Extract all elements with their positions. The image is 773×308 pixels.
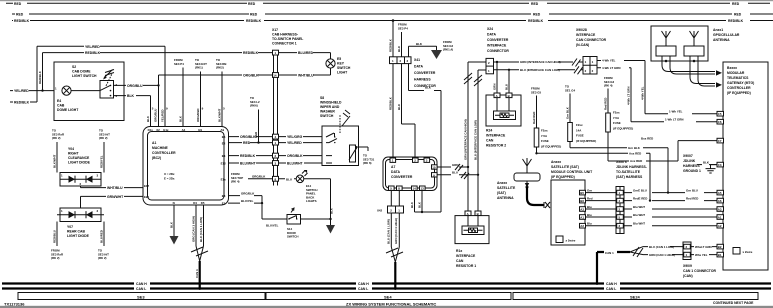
wire Blu WHT 3 JDLink to MTG bbox=[624, 222, 717, 226]
A1 left pins bbox=[144, 184, 150, 199]
svg-text:X9007: X9007 bbox=[683, 154, 693, 158]
svg-text:(IF EQUIPPED): (IF EQUIPPED) bbox=[613, 126, 633, 130]
svg-text:ZX WIRING SYSTEM FUNCTIONAL SC: ZX WIRING SYSTEM FUNCTIONAL SCHEMATIC bbox=[346, 301, 436, 306]
R1 interface CAN resistor 1 bbox=[455, 211, 489, 268]
svg-text:BLU/YEL: BLU/YEL bbox=[241, 199, 254, 203]
stub TO SE3 RR (RK2) bbox=[52, 129, 65, 141]
X42 data converter connector bbox=[377, 191, 404, 214]
svg-text:E2: E2 bbox=[222, 141, 226, 145]
svg-text:GRN (INTERFACE CAN HIGH): GRN (INTERFACE CAN HIGH) bbox=[520, 60, 561, 64]
wire A7 pin3 drop bbox=[423, 91, 425, 158]
svg-text:RED: RED bbox=[734, 13, 742, 17]
wire Red RED JDLink to MTG bbox=[624, 196, 717, 200]
svg-text:CAN CONNECTOR: CAN CONNECTOR bbox=[576, 38, 607, 42]
svg-text:BLK: BLK bbox=[703, 160, 710, 164]
svg-text:F2xx: F2xx bbox=[576, 123, 583, 127]
wire YEL/RED from left to dome light bbox=[10, 89, 62, 93]
svg-text:BLU/RED: BLU/RED bbox=[99, 230, 103, 243]
GPS antenna element 1 bbox=[656, 31, 676, 62]
svg-text:REAR CAB: REAR CAB bbox=[67, 230, 85, 234]
A7 right pins bbox=[432, 165, 438, 178]
svg-text:FUSE: FUSE bbox=[576, 134, 584, 138]
satellite (SAT) antenna bbox=[497, 158, 540, 200]
svg-text:14A: 14A bbox=[576, 128, 582, 132]
svg-text:YEL/RED: YEL/RED bbox=[160, 109, 164, 122]
stub TO SE3 EXT (RK1) to A1 bbox=[195, 58, 207, 127]
wire WHT/BLU from key switch light bbox=[279, 68, 331, 78]
svg-text:X2: X2 bbox=[156, 128, 160, 132]
svg-text:(RK6): (RK6) bbox=[250, 104, 258, 108]
svg-text:R1x: R1x bbox=[456, 249, 462, 253]
wire fuse F1 to MTG row bbox=[537, 152, 652, 202]
wire E14 to ground riser bbox=[304, 179, 334, 225]
svg-text:TO-SATELLITE: TO-SATELLITE bbox=[616, 170, 641, 174]
svg-text:S2: S2 bbox=[72, 65, 76, 69]
X90/28 interface CAN connector (N-CAN) bbox=[576, 28, 607, 74]
bus RED top bbox=[6, 2, 770, 6]
svg-text:YEL/RED: YEL/RED bbox=[85, 45, 100, 49]
svg-text:Red: Red bbox=[587, 196, 593, 200]
svg-text:RED/YEL: RED/YEL bbox=[99, 155, 103, 168]
wire A1 E2 to S8 YEL/RED bbox=[228, 141, 322, 145]
svg-text:A6: A6 bbox=[718, 199, 722, 203]
SAT antenna coax cable to module bbox=[527, 187, 551, 208]
svg-text:(SAT) HARNESS: (SAT) HARNESS bbox=[616, 175, 643, 179]
svg-text:GRN (INTERFACE CAN HIGH): GRN (INTERFACE CAN HIGH) bbox=[463, 119, 467, 160]
svg-text:WHT/BLU: WHT/BLU bbox=[298, 74, 314, 78]
svg-text:X42: X42 bbox=[377, 209, 383, 213]
svg-text:ANTENNA: ANTENNA bbox=[497, 196, 514, 200]
wire ORG/BLU from switch bbox=[114, 84, 160, 88]
wire RED/YEL into Y04 bbox=[99, 142, 104, 173]
stub FROM SE3 P4 to A1 bbox=[174, 58, 184, 127]
svg-text:Bxx RED: Bxx RED bbox=[641, 136, 653, 140]
svg-text:Anxxx: Anxxx bbox=[551, 160, 561, 164]
svg-text:Grn BLK: Grn BLK bbox=[628, 146, 641, 150]
section bar SE24 bbox=[513, 293, 758, 300]
svg-text:BLU (INTERFACE CAN LOW): BLU (INTERFACE CAN LOW) bbox=[520, 68, 560, 72]
X24 data converter interface connector bbox=[468, 27, 509, 74]
wire fuse F2 to MTG row bbox=[570, 146, 669, 194]
A1 machine controller (BC2) bbox=[143, 127, 229, 206]
svg-text:E3: E3 bbox=[222, 194, 226, 198]
wire BLU/RED to key switch light bbox=[279, 51, 331, 59]
lamp E4 cab dome light bbox=[55, 86, 79, 112]
svg-text:10: 10 bbox=[432, 166, 436, 170]
coax antenna 2 to MTG bbox=[690, 61, 722, 88]
svg-text:CAN: CAN bbox=[486, 139, 494, 143]
stub FROM SE3 RxR (RK2) bbox=[51, 249, 64, 261]
S2 cab dome light switch enclosure bbox=[54, 62, 124, 121]
S8 windshield wiper and washer switch bbox=[320, 96, 359, 166]
svg-text:DOME LIGHT: DOME LIGHT bbox=[57, 108, 79, 112]
S14 door switch bbox=[287, 208, 301, 239]
wire BLK from switch bbox=[114, 94, 151, 126]
svg-text:JDLINK HARNESS-: JDLINK HARNESS- bbox=[616, 165, 647, 169]
wire 4-WH LT GRN from X90/28 bbox=[597, 66, 631, 122]
svg-text:Anxxx: Anxxx bbox=[497, 181, 507, 185]
svg-text:LIGHT DIODE: LIGHT DIODE bbox=[68, 161, 91, 165]
wire ORG/BLU drop to A1 bbox=[154, 85, 159, 126]
svg-text:B6: B6 bbox=[580, 199, 584, 203]
svg-text:4-Wh LT GRN: 4-Wh LT GRN bbox=[626, 87, 630, 105]
stub TO SE3 L2 (RK5) bbox=[250, 96, 260, 143]
svg-text:Y04: Y04 bbox=[68, 147, 74, 151]
svg-text:(RK1): (RK1) bbox=[195, 66, 203, 70]
svg-text:X17: X17 bbox=[272, 28, 278, 32]
svg-text:ORG/BLK: ORG/BLK bbox=[240, 135, 256, 139]
svg-text:BLK: BLK bbox=[410, 201, 414, 208]
svg-text:BLU: BLU bbox=[397, 104, 401, 110]
lamp E14 switch panel back lights bbox=[279, 171, 318, 204]
R24 interface CAN resistor 2 bbox=[486, 93, 521, 148]
X17 pin 3 bbox=[273, 161, 279, 166]
wire A1 E6 to S8 YEL/ORG bbox=[228, 135, 322, 139]
svg-text:DATA: DATA bbox=[487, 33, 496, 37]
svg-text:SE1 G4: SE1 G4 bbox=[565, 88, 576, 92]
svg-text:RESISTOR 1: RESISTOR 1 bbox=[456, 264, 476, 268]
svg-text:(RK 2): (RK 2) bbox=[52, 136, 61, 140]
svg-text:TO-SWITCH PANEL: TO-SWITCH PANEL bbox=[272, 37, 303, 41]
svg-text:BLU/YEL: BLU/YEL bbox=[266, 224, 279, 228]
svg-text:RED/BLK: RED/BLK bbox=[246, 19, 262, 23]
wire BLK/WHT into Y04 bbox=[52, 142, 57, 173]
svg-text:SE3 P4: SE3 P4 bbox=[174, 62, 184, 66]
svg-text:MODULAR: MODULAR bbox=[727, 71, 745, 75]
svg-text:Blu WHT: Blu WHT bbox=[633, 213, 645, 217]
svg-text:BLU/RED: BLU/RED bbox=[298, 51, 314, 55]
svg-text:CAN 1: CAN 1 bbox=[195, 269, 199, 278]
MTG left pins bbox=[717, 111, 724, 257]
svg-text:TX1173136: TX1173136 bbox=[4, 301, 25, 306]
A1 bottom pins bbox=[173, 201, 205, 205]
wire A7 pin9 BLU to interface CAN bbox=[437, 171, 479, 179]
A1 top pins bbox=[148, 128, 225, 132]
svg-text:LIGHT: LIGHT bbox=[337, 71, 348, 75]
svg-text:GRN (CAN 1 HIGH): GRN (CAN 1 HIGH) bbox=[394, 218, 398, 244]
svg-text:INTERFACE: INTERFACE bbox=[487, 44, 507, 48]
svg-text:CONVERTER: CONVERTER bbox=[487, 38, 509, 42]
svg-text:MODULE CONTROL UNIT: MODULE CONTROL UNIT bbox=[551, 170, 593, 174]
svg-text:YEL/RED: YEL/RED bbox=[287, 141, 302, 145]
stub TO SE3 RHT (RK2) lower bbox=[98, 249, 109, 261]
svg-text:(RK1,4): (RK1,4) bbox=[443, 48, 453, 52]
wire 1-WH LT GRN to MTG C6 bbox=[631, 118, 717, 122]
svg-text:RED/BLK: RED/BLK bbox=[240, 154, 256, 158]
svg-text:(RK 4): (RK 4) bbox=[231, 180, 240, 184]
X17 pin 8 bbox=[273, 176, 279, 181]
X17 pin 4 bbox=[273, 134, 279, 139]
svg-text:E5: E5 bbox=[222, 202, 226, 206]
wire X9007 BLK to MTG C3 bbox=[709, 164, 717, 166]
svg-text:Blu: Blu bbox=[587, 222, 592, 226]
SAT module right pins bbox=[580, 190, 586, 228]
svg-text:E12: E12 bbox=[221, 162, 227, 166]
page top border bbox=[0, 0, 773, 1]
fuse F2 15A bbox=[565, 85, 596, 148]
B???? modular telematics gateway (MTG) controller bbox=[723, 62, 768, 270]
svg-text:1-Wh YEL: 1-Wh YEL bbox=[669, 110, 683, 114]
svg-text:E21: E21 bbox=[144, 195, 150, 199]
svg-text:HARNESS: HARNESS bbox=[414, 78, 431, 82]
svg-text:A5: A5 bbox=[718, 191, 722, 195]
wire CAN pair from A1 bbox=[191, 205, 203, 246]
svg-text:SWITCH: SWITCH bbox=[287, 235, 298, 239]
wire BLU interface CAN low to X90/28 bbox=[494, 66, 584, 74]
svg-text:(RK 2): (RK 2) bbox=[98, 256, 107, 260]
svg-text:RED/BLK: RED/BLK bbox=[728, 19, 744, 23]
svg-text:C6: C6 bbox=[718, 120, 722, 124]
svg-text:RED/BLK: RED/BLK bbox=[14, 101, 30, 105]
wire YEL/RED to A1 bbox=[37, 45, 165, 49]
svg-text:x 2wire: x 2wire bbox=[566, 239, 576, 243]
svg-text:E4: E4 bbox=[57, 99, 61, 103]
svg-text:SE4: SE4 bbox=[384, 294, 392, 299]
node RED/BLK bus tap for X41 bbox=[392, 19, 395, 22]
svg-text:BLK: BLK bbox=[416, 42, 423, 46]
wire GRN drop to R24 bbox=[492, 62, 497, 95]
svg-text:E1x: E1x bbox=[221, 178, 227, 182]
svg-text:RED: RED bbox=[248, 2, 256, 6]
svg-text:4-Wh LT GRN: 4-Wh LT GRN bbox=[602, 66, 620, 70]
wire A1 E4 to S8 ORG/BLK bbox=[228, 154, 322, 158]
svg-text:BLU/WHT: BLU/WHT bbox=[287, 162, 304, 166]
wire RED/BLK from left bbox=[10, 101, 37, 105]
svg-text:INTERFACE: INTERFACE bbox=[576, 33, 596, 37]
svg-text:X90/9: X90/9 bbox=[683, 264, 692, 268]
svg-text:D1x: D1x bbox=[148, 128, 154, 132]
svg-text:F2xx: F2xx bbox=[613, 111, 620, 115]
X17 pin 14 bbox=[273, 73, 279, 78]
svg-text:WASHER: WASHER bbox=[320, 110, 335, 114]
stub S8 TO SE3 T31 (RK6) bbox=[359, 147, 375, 165]
stub FROM SE3 P4 to X41 bbox=[397, 23, 408, 57]
X17 pin 1b bbox=[273, 140, 279, 145]
svg-text:A4: A4 bbox=[182, 128, 186, 132]
svg-text:RED/BLK: RED/BLK bbox=[528, 19, 544, 23]
svg-text:GrnE BLU: GrnE BLU bbox=[633, 188, 647, 192]
svg-text:Blu WHT: Blu WHT bbox=[633, 205, 645, 209]
svg-text:Bxxxx: Bxxxx bbox=[727, 66, 737, 70]
svg-text:CONVERTER: CONVERTER bbox=[414, 71, 436, 75]
svg-text:CAN L: CAN L bbox=[606, 287, 616, 291]
svg-text:(BC2): (BC2) bbox=[152, 156, 161, 160]
A???? satellite (SAT) module control unit (IF EQUIPPED) bbox=[551, 160, 593, 245]
svg-text:4-Wh YEL: 4-Wh YEL bbox=[640, 86, 644, 100]
svg-text:RED/BLK: RED/BLK bbox=[14, 19, 30, 23]
svg-text:LIGHT DIODE: LIGHT DIODE bbox=[67, 234, 90, 238]
wire RED/BLK X41 to A7 pin1 bbox=[388, 64, 393, 157]
wire fuse F3 to MTG C7 bbox=[608, 136, 717, 163]
svg-text:Axx RED: Axx RED bbox=[630, 159, 642, 163]
svg-text:E4: E4 bbox=[222, 154, 226, 158]
wire BLU/RED from Y07 down bbox=[99, 222, 104, 247]
svg-text:(RK 4): (RK 4) bbox=[604, 84, 613, 88]
section bar SE3 bbox=[18, 293, 265, 300]
svg-text:BLK: BLK bbox=[329, 207, 333, 214]
svg-text:WhxLT GRN: WhxLT GRN bbox=[695, 245, 712, 249]
switch S2 contacts bbox=[100, 70, 118, 99]
svg-text:BLU (CAN 1 LOW): BLU (CAN 1 LOW) bbox=[387, 219, 391, 244]
svg-text:RED: RED bbox=[531, 2, 539, 6]
svg-text:YEL/ORG: YEL/ORG bbox=[287, 135, 303, 139]
svg-text:Red RED: Red RED bbox=[686, 196, 698, 200]
svg-text:A1: A1 bbox=[580, 216, 584, 220]
svg-text:CAN H: CAN H bbox=[358, 282, 369, 286]
svg-text:N: N bbox=[173, 201, 175, 205]
svg-text:CAN 1: CAN 1 bbox=[605, 251, 614, 255]
wire Blu WHT JDLink to MTG bbox=[624, 205, 717, 209]
wire A1 ground BLK bbox=[169, 205, 174, 236]
fuse F3 7.5A bbox=[603, 76, 633, 161]
X9007 JDLink harness ground 1 bbox=[683, 154, 717, 173]
fuse F1 7.5A bbox=[531, 87, 561, 155]
svg-text:(RK 2): (RK 2) bbox=[51, 256, 60, 260]
svg-text:E6: E6 bbox=[222, 135, 226, 139]
svg-text:INTERFACE: INTERFACE bbox=[486, 134, 506, 138]
svg-text:GPS/CELLULAR: GPS/CELLULAR bbox=[713, 33, 740, 37]
svg-text:Blu: Blu bbox=[587, 205, 592, 209]
svg-text:SE3 G5: SE3 G5 bbox=[531, 90, 542, 94]
title text bbox=[346, 301, 436, 306]
page bottom border bbox=[0, 306, 773, 308]
wire BLK X41 pin3 to ground bbox=[409, 42, 437, 57]
svg-text:(RK2): (RK2) bbox=[216, 66, 224, 70]
svg-text:CONTROLLER: CONTROLLER bbox=[152, 151, 176, 155]
CAN 1 splitter to pair bbox=[630, 245, 683, 257]
svg-text:CONNECTOR: CONNECTOR bbox=[487, 49, 509, 53]
wire ORG/BLK to X17 pin 14 bbox=[159, 74, 273, 86]
svg-text:D4: D4 bbox=[193, 201, 197, 205]
svg-text:GRN (CAN 1 HIGH): GRN (CAN 1 HIGH) bbox=[649, 253, 675, 257]
svg-text:A3: A3 bbox=[580, 208, 584, 212]
svg-text:x 2wire: x 2wire bbox=[743, 250, 753, 254]
drawing number TX1173136 bbox=[4, 301, 25, 306]
wire YEL/RED feed vertical bbox=[36, 46, 38, 102]
svg-text:C5: C5 bbox=[718, 112, 722, 116]
svg-text:14: 14 bbox=[413, 187, 417, 191]
svg-text:RED/BLK: RED/BLK bbox=[243, 51, 259, 55]
wire BLK net X41 to A7 pins 13/14 bbox=[409, 64, 442, 214]
svg-text:Grn BLK: Grn BLK bbox=[565, 106, 569, 119]
bus RED 2 bbox=[12, 13, 773, 17]
wire GRN/WHT Y07 to A1 bbox=[81, 195, 144, 208]
svg-text:GROUND 1: GROUND 1 bbox=[683, 169, 701, 173]
svg-text:C3: C3 bbox=[718, 163, 722, 167]
svg-text:E9: E9 bbox=[198, 128, 202, 132]
svg-text:CAB DOME: CAB DOME bbox=[72, 70, 91, 74]
svg-text:R24: R24 bbox=[486, 129, 492, 133]
svg-text:(IF EQUIPPED): (IF EQUIPPED) bbox=[541, 144, 561, 148]
svg-text:14: 14 bbox=[273, 74, 277, 78]
stub FROM SE3 TOP (RK4) to X17 pin 8 bbox=[231, 172, 273, 184]
svg-text:WINDSHIELD: WINDSHIELD bbox=[320, 101, 342, 105]
X41 data converter harness connector bbox=[390, 57, 437, 88]
svg-text:7.5A: 7.5A bbox=[613, 116, 620, 120]
svg-text:GRN/WHT: GRN/WHT bbox=[107, 195, 124, 199]
svg-text:SE3: SE3 bbox=[137, 294, 145, 299]
X17 pin 1 bbox=[273, 50, 279, 55]
wire ORG/BLK A1 E3 bbox=[228, 191, 263, 204]
svg-text:A1: A1 bbox=[718, 216, 722, 220]
svg-text:CONTROLLER: CONTROLLER bbox=[727, 86, 751, 90]
svg-text:RED: RED bbox=[250, 13, 258, 17]
svg-text:BLK/WHT: BLK/WHT bbox=[217, 108, 221, 122]
wire WH LT GRN X90/9 to MTG B2 bbox=[691, 245, 717, 249]
svg-text:BLU/WHT: BLU/WHT bbox=[240, 162, 257, 166]
stub FROM SE3 (RK1,4) bbox=[443, 40, 454, 52]
svg-text:(CAN): (CAN) bbox=[683, 274, 693, 278]
svg-text:X90/28: X90/28 bbox=[576, 28, 587, 32]
wire RED/BLK to X17 pin 1 bbox=[43, 51, 273, 55]
wire RED/BLK riser bbox=[38, 53, 44, 92]
svg-text:CAN H: CAN H bbox=[136, 282, 147, 286]
lamp E5 key switch light bbox=[326, 57, 351, 75]
svg-text:RED/BLK: RED/BLK bbox=[388, 96, 392, 110]
svg-text:Grn BLU: Grn BLU bbox=[686, 188, 698, 192]
ground arrow E14/S14 bbox=[326, 225, 335, 234]
A7 top pins bbox=[390, 158, 430, 163]
svg-text:INTERFACE: INTERFACE bbox=[456, 254, 476, 258]
ground arrow X41 bbox=[431, 46, 442, 59]
svg-text:LIGHT SWITCH: LIGHT SWITCH bbox=[72, 74, 97, 78]
svg-text:A7: A7 bbox=[391, 165, 395, 169]
svg-text:CAB: CAB bbox=[57, 104, 65, 108]
svg-text:A3: A3 bbox=[718, 208, 722, 212]
svg-text:RIGHT: RIGHT bbox=[68, 152, 79, 156]
svg-text:S8: S8 bbox=[320, 96, 324, 100]
svg-text:ORG/RED: ORG/RED bbox=[196, 109, 200, 123]
svg-text:CAN L: CAN L bbox=[358, 287, 368, 291]
wire BLU X41 to A7 pin2 bbox=[397, 64, 415, 157]
wire door switch to ground riser bbox=[301, 218, 331, 220]
svg-text:RED/BLK: RED/BLK bbox=[388, 38, 392, 52]
svg-text:RedE RED: RedE RED bbox=[633, 196, 647, 200]
svg-text:Red RED: Red RED bbox=[532, 112, 536, 124]
svg-text:X24: X24 bbox=[487, 27, 493, 31]
svg-text:SE24: SE24 bbox=[630, 294, 641, 299]
svg-text:RED/BLK: RED/BLK bbox=[38, 70, 42, 84]
svg-text:FUSE: FUSE bbox=[613, 121, 621, 125]
section bar SE4 bbox=[266, 293, 511, 300]
coax antenna 1 to MTG bbox=[662, 61, 722, 76]
svg-text:B5: B5 bbox=[580, 191, 584, 195]
svg-text:WIPER AND: WIPER AND bbox=[320, 105, 340, 109]
svg-text:13: 13 bbox=[421, 187, 425, 191]
svg-text:X = 2Dx: X = 2Dx bbox=[164, 172, 175, 176]
svg-text:Axx RED: Axx RED bbox=[629, 152, 641, 156]
ground arrow A1 bbox=[170, 236, 179, 245]
svg-text:BLU (INTERFACE CAN LOW): BLU (INTERFACE CAN LOW) bbox=[473, 120, 477, 160]
CAN 1 thick wire from bus bbox=[596, 251, 630, 285]
X17 cab harness-to-switch panel connector 1 bbox=[272, 28, 303, 186]
svg-text:BLK: BLK bbox=[425, 86, 432, 90]
wire Grn BLU JDLink to MTG bbox=[624, 188, 717, 192]
svg-text:(RK 6): (RK 6) bbox=[363, 161, 372, 165]
svg-text:A1: A1 bbox=[152, 141, 156, 145]
wire WHT/BLU Y04 to A1 bbox=[81, 186, 144, 190]
svg-text:RED: RED bbox=[16, 13, 24, 17]
GPS antenna element 2 bbox=[684, 31, 704, 62]
svg-text:ORG/BLU: ORG/BLU bbox=[154, 109, 158, 122]
svg-text:BLK: BLK bbox=[178, 115, 182, 122]
svg-text:CONNECTOR 1: CONNECTOR 1 bbox=[272, 42, 297, 46]
wire 4-WH YEL from X90/28 bbox=[597, 59, 645, 114]
stub TO SE3 RHT (RK2) bbox=[99, 129, 110, 141]
svg-text:TELEMATICS: TELEMATICS bbox=[727, 76, 749, 80]
svg-text:ORG/BLU: ORG/BLU bbox=[127, 84, 143, 88]
svg-text:ORG/BLK: ORG/BLK bbox=[241, 191, 255, 195]
